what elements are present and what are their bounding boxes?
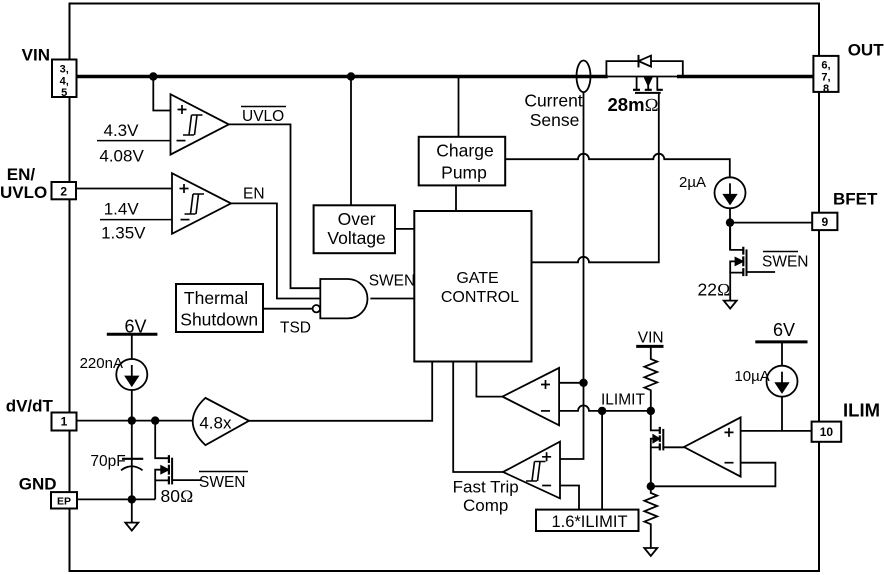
svg-text:Thermal: Thermal xyxy=(184,288,248,308)
label 28mOhm xyxy=(608,94,659,116)
svg-text:22Ω: 22Ω xyxy=(698,280,731,300)
wire Thermal Shutdown TSD to AND gate bubble xyxy=(263,308,313,310)
wire 6V bar to 10uA source to ILIM line xyxy=(781,342,783,431)
svg-text:Pump: Pump xyxy=(441,162,487,182)
op-amp U6 ILIM amp xyxy=(684,417,741,476)
node BFET junction xyxy=(726,218,734,226)
svg-text:Fast Trip: Fast Trip xyxy=(453,478,519,497)
wire 6V bar to 220nA source to dV/dT line xyxy=(131,334,133,420)
label pin EP xyxy=(57,495,71,507)
label 4.08V threshold xyxy=(99,146,144,165)
wire VIN rail to Over Voltage block xyxy=(350,77,352,206)
wire ground stem below GND node xyxy=(131,499,133,522)
node VIN rail junction 2 xyxy=(347,72,355,80)
wire UVLO comparator output to AND gate input 1 xyxy=(229,124,320,288)
wire current sense line to comparator + inputs xyxy=(560,92,584,459)
svg-text:4.3V: 4.3V xyxy=(104,121,140,140)
label pin number 1 xyxy=(61,415,68,429)
label 6V right xyxy=(773,320,795,340)
svg-text:SWEN: SWEN xyxy=(369,273,416,290)
label pin numbers 6,7,8 xyxy=(821,60,830,96)
wire AND gate SWEN output to GATE CONTROL xyxy=(370,298,414,300)
svg-text:1.35V: 1.35V xyxy=(101,223,146,242)
node ILIMIT junction 1 xyxy=(598,407,606,415)
power bar 6V left xyxy=(107,333,158,336)
label pin number 10 xyxy=(820,425,834,439)
overline for SWEN at Q2 xyxy=(763,251,798,253)
AND gate U3 with inverted TSD input xyxy=(313,279,368,318)
wire EN/UVLO pin to EN comparator + input xyxy=(76,188,172,190)
current sense ellipse xyxy=(577,61,591,93)
svg-text:VIN: VIN xyxy=(638,329,664,346)
op-amp U7 4.8x amplifier xyxy=(193,398,249,445)
resistor R1 VIN to ILIMIT xyxy=(636,346,663,411)
wire ILIM amp + input to pin 10 xyxy=(741,430,812,432)
label SWEN at Q2 xyxy=(762,253,809,270)
wire VIN to UVLO comparator + input xyxy=(153,77,170,111)
svg-text:VIN: VIN xyxy=(22,46,50,65)
label Current Sense xyxy=(524,90,582,130)
svg-text:TSD: TSD xyxy=(280,320,311,337)
diode D1 body diode of pass FET xyxy=(606,55,682,77)
svg-text:4,: 4, xyxy=(60,76,69,88)
transistor Q4 80 ohm SWEN FET at dV/dT xyxy=(155,421,201,500)
svg-text:3,: 3, xyxy=(60,64,69,76)
svg-text:Voltage: Voltage xyxy=(327,228,385,248)
svg-text:6V: 6V xyxy=(773,320,795,340)
current source I2 2uA xyxy=(715,177,746,208)
node feedback junction xyxy=(647,482,655,490)
overline for UVLO signal xyxy=(241,106,286,108)
svg-text:ILIMIT: ILIMIT xyxy=(601,392,645,409)
transistor Q3 current limit FET xyxy=(651,411,684,486)
label UVLO signal xyxy=(242,108,284,125)
pin box GND EP xyxy=(51,492,77,508)
label OUT pin xyxy=(848,40,884,59)
wire ILIMIT to 1.6*ILIMIT block xyxy=(601,411,603,510)
wire Charge Pump to GATE CONTROL xyxy=(455,185,457,211)
svg-text:GATE: GATE xyxy=(456,270,498,287)
svg-text:70pF: 70pF xyxy=(90,453,125,470)
label 22 ohm xyxy=(698,280,731,300)
op-amp U1 UVLO comparator xyxy=(171,94,229,154)
resistor R2 below ILIMIT node xyxy=(644,486,657,548)
capacitor C1 70pF xyxy=(121,459,143,471)
wire current limit comparator + input xyxy=(559,382,583,384)
node GND junction xyxy=(128,495,136,503)
label Over Voltage block xyxy=(327,209,385,248)
svg-text:4.8x: 4.8x xyxy=(199,413,232,432)
label GATE CONTROL block xyxy=(441,270,519,306)
label VIN pin xyxy=(22,46,50,65)
op-amp U5 Fast Trip comparator xyxy=(503,442,560,499)
svg-text:EP: EP xyxy=(57,495,71,507)
pin box dV/dT 1 xyxy=(52,413,77,431)
svg-text:GND: GND xyxy=(19,474,57,493)
wire dV/dT pin line xyxy=(77,420,193,422)
svg-text:2µA: 2µA xyxy=(679,174,706,191)
svg-text:Comp: Comp xyxy=(463,496,508,515)
svg-text:220nA: 220nA xyxy=(80,355,123,372)
wire BFET node to pin 9 xyxy=(730,222,812,224)
wire Fast Trip comparator output to GATE CONTROL xyxy=(453,362,503,473)
transistor Q2 22 ohm SWEN FET at BFET xyxy=(730,223,775,301)
label SWEN at Q4 xyxy=(199,474,246,491)
svg-text:1.6*ILIMIT: 1.6*ILIMIT xyxy=(551,513,627,531)
svg-text:dV/dT: dV/dT xyxy=(6,396,54,415)
label 6V left xyxy=(124,316,146,336)
label 80 ohm xyxy=(161,486,194,506)
svg-text:Charge: Charge xyxy=(436,141,493,161)
wire 4.8x amp output to GATE CONTROL xyxy=(249,362,432,421)
svg-text:Sense: Sense xyxy=(530,110,580,130)
current source I1 220nA xyxy=(116,359,147,390)
svg-text:BFET: BFET xyxy=(833,189,878,208)
wire dV/dT node to 70pF cap to ground node xyxy=(131,421,133,500)
svg-text:9: 9 xyxy=(821,215,828,229)
wire Over Voltage to GATE CONTROL xyxy=(395,228,414,230)
svg-text:Over: Over xyxy=(338,209,376,229)
svg-text:10: 10 xyxy=(820,425,834,439)
node VIN rail junction 1 xyxy=(149,72,157,80)
wire ILIM amp - input feedback xyxy=(651,463,776,487)
svg-text:10µA: 10µA xyxy=(734,368,769,385)
svg-text:80Ω: 80Ω xyxy=(161,486,194,506)
block GATE CONTROL xyxy=(414,211,531,362)
wire rail thin segment through pass FET xyxy=(608,76,677,78)
label 1.35V threshold xyxy=(101,223,146,242)
transistor Q1 pass FET 28mOhm xyxy=(633,77,663,93)
svg-text:UVLO: UVLO xyxy=(0,183,47,202)
label 2uA xyxy=(679,174,706,191)
svg-text:7,: 7, xyxy=(821,72,830,84)
svg-text:SWEN: SWEN xyxy=(199,474,246,491)
pin box BFET 9 xyxy=(812,213,837,230)
block 1.6*ILIMIT xyxy=(536,510,639,531)
svg-text:SWEN: SWEN xyxy=(762,253,809,270)
power bar 6V right xyxy=(755,340,807,343)
svg-text:6,: 6, xyxy=(821,60,830,72)
label TSD signal xyxy=(280,320,311,337)
wire 2uA source to BFET node xyxy=(729,208,731,250)
wire GND EP pin line xyxy=(77,498,155,500)
label Fast Trip Comp xyxy=(453,478,519,515)
label 4.3V threshold xyxy=(104,121,140,140)
overline for SWEN at Q4 xyxy=(199,471,248,473)
svg-text:1: 1 xyxy=(61,415,68,429)
svg-text:ILIM: ILIM xyxy=(843,399,880,420)
block Thermal Shutdown xyxy=(176,284,263,332)
svg-text:EN: EN xyxy=(243,185,265,202)
svg-text:Shutdown: Shutdown xyxy=(180,309,258,329)
wire 1.4V threshold to EN comparator - input xyxy=(100,219,172,221)
svg-text:OUT: OUT xyxy=(848,40,884,59)
label pin number 9 xyxy=(821,215,828,229)
label 1.4V threshold xyxy=(104,200,140,219)
node dV/dT junction 1 xyxy=(128,416,136,424)
svg-text:5: 5 xyxy=(61,87,67,99)
svg-text:EN/: EN/ xyxy=(7,165,36,184)
label BFET pin xyxy=(833,189,878,208)
svg-text:UVLO: UVLO xyxy=(242,108,284,125)
wire GATE CONTROL output to pass FET gate (hops over sense line) xyxy=(532,93,659,262)
svg-text:1.4V: 1.4V xyxy=(104,200,140,219)
label 10uA xyxy=(734,368,769,385)
wire ILIMIT line to comparator - input (hops over sense line) xyxy=(559,405,651,411)
label SWEN signal at AND output xyxy=(369,273,416,290)
label GND pin xyxy=(19,474,57,493)
current source I3 10uA xyxy=(767,366,798,397)
label 220nA xyxy=(80,355,123,372)
block Over Voltage xyxy=(314,205,395,253)
wire Fast Trip comparator - input to 1.6*ILIMIT block xyxy=(559,486,579,510)
wire Charge Pump output to 2uA source (hops over sense and gate lines) xyxy=(505,154,730,178)
svg-text:8: 8 xyxy=(823,83,829,95)
wire VIN rail (thick) xyxy=(77,75,814,78)
svg-text:2: 2 xyxy=(60,185,67,199)
node ILIMIT junction 2 xyxy=(647,407,655,415)
wire EN comparator output to AND gate input 2 xyxy=(231,203,320,298)
op-amp U2 EN comparator xyxy=(172,173,231,234)
ground symbol below 70pF xyxy=(125,523,138,531)
label dV/dT pin xyxy=(6,396,54,415)
label pin number 2 xyxy=(60,185,67,199)
pin box OUT 6,7,8 xyxy=(813,56,838,92)
label EN/UVLO pin xyxy=(0,165,47,202)
label 4.8x xyxy=(199,413,232,432)
label 1.6*ILIMIT block xyxy=(551,513,627,531)
label ILIM pin xyxy=(843,399,880,420)
node sense to current limit comparator xyxy=(579,379,587,387)
wire VIN rail to Charge Pump xyxy=(458,77,460,137)
svg-text:28mΩ: 28mΩ xyxy=(608,94,659,116)
block Charge Pump xyxy=(419,137,506,186)
label pin numbers 3,4,5 xyxy=(60,64,69,100)
label VIN net at R1 xyxy=(638,329,664,346)
wire 4.3V threshold to UVLO comparator - input xyxy=(97,140,171,142)
svg-text:Current: Current xyxy=(524,90,582,110)
pin box ILIM 10 xyxy=(812,422,842,442)
op-amp U4 current limit comparator xyxy=(502,368,559,425)
label Thermal Shutdown block xyxy=(180,288,258,329)
label 70pF xyxy=(90,453,125,470)
svg-text:CONTROL: CONTROL xyxy=(441,289,519,306)
node dV/dT junction 2 xyxy=(151,416,159,424)
pin box EN/UVLO 2 xyxy=(52,182,77,199)
pin box VIN 3,4,5 xyxy=(52,60,77,98)
svg-text:4.08V: 4.08V xyxy=(99,146,144,165)
wire current limit comparator output to GATE CONTROL xyxy=(476,362,502,397)
label ILIMIT net xyxy=(601,392,645,409)
label EN signal xyxy=(243,185,265,202)
ground symbol below Q2 xyxy=(724,301,737,309)
svg-text:6V: 6V xyxy=(124,316,146,336)
label Charge Pump block xyxy=(436,141,493,183)
ground symbol below R2 xyxy=(644,548,657,556)
